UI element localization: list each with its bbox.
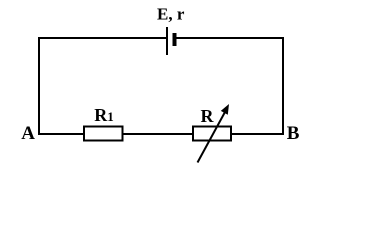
svg-text:R1: R1 [94,105,114,125]
wire top right segment (from battery) [176,37,284,39]
svg-text:B: B [287,123,300,144]
battery E,r short plate [173,33,177,46]
wire right vertical (top-right corner to B) [282,37,284,135]
svg-text:E, r: E, r [157,4,185,23]
resistor R1 body [84,127,123,141]
variable resistor R body [193,127,231,141]
wire top left segment (to battery) [38,37,167,39]
battery E,r long plate [166,27,168,55]
svg-text:A: A [21,123,35,144]
wire bottom (A to B through resistors) [38,133,284,135]
variable resistor R arrow [198,104,230,163]
svg-text:R: R [201,106,215,126]
wire left vertical (A to top-left corner) [38,37,40,135]
